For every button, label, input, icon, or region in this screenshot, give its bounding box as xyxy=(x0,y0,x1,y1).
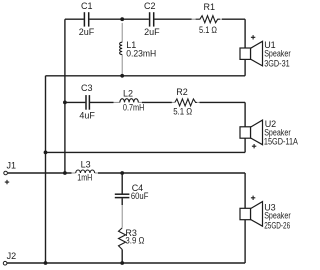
svg-text:2uF: 2uF xyxy=(79,27,95,37)
svg-text:0.7mH: 0.7mH xyxy=(123,103,144,113)
svg-text:60uF: 60uF xyxy=(131,191,149,201)
svg-text:5.1 Ω: 5.1 Ω xyxy=(199,25,217,35)
svg-text:5.1 Ω: 5.1 Ω xyxy=(173,107,192,117)
svg-text:1mH: 1mH xyxy=(77,173,92,183)
svg-text:25GD-26: 25GD-26 xyxy=(264,221,290,231)
svg-text:Speaker: Speaker xyxy=(264,211,291,221)
svg-text:3.9 Ω: 3.9 Ω xyxy=(125,236,144,246)
svg-text:C1: C1 xyxy=(81,1,93,11)
svg-text:4uF: 4uF xyxy=(79,110,95,120)
svg-text:C2: C2 xyxy=(144,1,156,11)
svg-text:2uF: 2uF xyxy=(144,27,160,37)
svg-text:3GD-31: 3GD-31 xyxy=(264,58,290,68)
svg-text:Speaker: Speaker xyxy=(264,49,291,59)
svg-text:C3: C3 xyxy=(81,83,93,93)
svg-text:J2: J2 xyxy=(7,251,17,261)
svg-text:J1: J1 xyxy=(7,161,17,171)
svg-text:0.23mH: 0.23mH xyxy=(126,49,156,59)
svg-text:L3: L3 xyxy=(81,159,91,169)
svg-text:L2: L2 xyxy=(123,88,133,98)
svg-text:15GD-11A: 15GD-11A xyxy=(264,137,298,147)
svg-text:R2: R2 xyxy=(176,87,188,97)
svg-text:R1: R1 xyxy=(204,2,216,12)
